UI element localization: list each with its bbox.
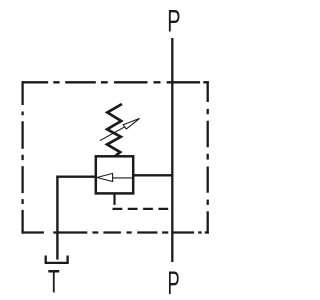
left port wire, corner down to tank [57,177,95,260]
enclosure dash-dot border bottom [22,231,209,233]
valve body square [96,156,133,193]
tank symbol [46,256,68,263]
spring (zigzag) [107,104,122,156]
enclosure dash-dot border right [207,81,209,233]
internal flow arrow line [113,177,133,179]
right port wire to P line [133,174,172,176]
internal flow arrow (open head, pointing left) [97,173,113,181]
pilot drain dashed line vertical stub [113,195,115,205]
svg-text:P: P [167,265,179,300]
svg-text:P: P [167,3,180,39]
enclosure dash-dot border top [22,81,209,83]
enclosure dash-dot border left [21,81,23,233]
spring adjustment arrow shaft [100,127,125,141]
spring adjustment arrowhead (open) [123,118,139,129]
pilot drain dashed line horizontal [113,208,170,210]
svg-text:T: T [48,264,60,300]
P line (main pressure line) [171,38,173,262]
